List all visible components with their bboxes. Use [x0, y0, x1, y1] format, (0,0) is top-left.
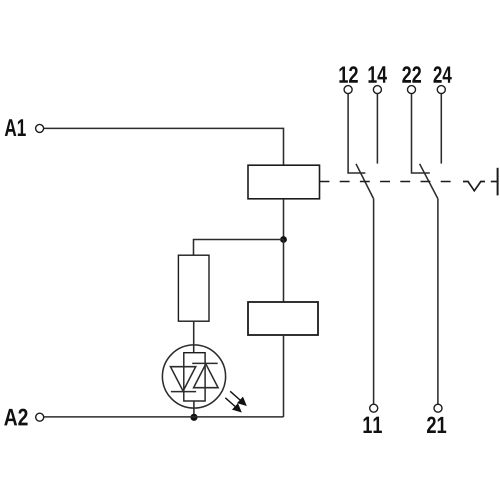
pin label 12 — [339, 66, 357, 82]
pin label 21 — [427, 417, 446, 433]
wire coil to junction — [283, 199, 285, 240]
wire junction to resistor — [194, 240, 284, 256]
wire block to A2 line — [283, 335, 285, 417]
wire terminal 22 — [412, 94, 430, 173]
wire resistor to LED — [193, 321, 195, 353]
wire A1 to coil — [44, 128, 284, 165]
terminal 24 — [437, 86, 445, 94]
coil block K1b — [248, 302, 318, 335]
terminal label A2 — [4, 409, 27, 426]
mechanical link dashed line — [320, 181, 456, 183]
diode D1 cathode bar — [171, 391, 196, 393]
actuator bar — [497, 168, 499, 196]
terminal A1 — [36, 124, 44, 132]
terminal 14 — [373, 86, 381, 94]
resistor R1 — [178, 255, 209, 321]
terminal A2 — [36, 413, 44, 421]
wire A2 — [44, 416, 284, 418]
pin label 11 — [364, 417, 382, 433]
diode D2 triangle — [194, 364, 219, 388]
wire terminal 14 — [376, 94, 378, 164]
terminal 11 — [370, 404, 378, 412]
terminal 22 — [408, 86, 416, 94]
wire terminal 12 — [348, 94, 365, 173]
LED emission arrow 1 — [230, 391, 246, 405]
wire common 11 — [373, 198, 375, 404]
actuator tick — [491, 181, 498, 183]
node junction bottom — [190, 414, 197, 421]
terminal 21 — [434, 404, 442, 412]
terminal label A1 — [5, 119, 26, 136]
LED block rectangle — [184, 353, 205, 401]
node junction top — [280, 236, 287, 243]
wire LED to A2 node — [193, 401, 195, 417]
diode D2 cathode bar — [192, 362, 218, 364]
wire common 21 — [437, 198, 439, 404]
LED emission arrow 2 — [225, 398, 241, 412]
LED indicator circle — [162, 345, 225, 408]
test button symbol — [463, 182, 485, 191]
pin label 22 — [402, 66, 421, 82]
contact blade 1 — [356, 164, 373, 199]
pin label 24 — [433, 66, 451, 82]
wire terminal 24 — [440, 94, 442, 164]
contact blade 2 — [420, 164, 438, 199]
pin label 14 — [369, 66, 387, 82]
relay coil K1 — [248, 165, 320, 199]
wire junction to block — [283, 240, 285, 303]
terminal 12 — [344, 86, 352, 94]
diode D1 triangle — [171, 367, 196, 391]
